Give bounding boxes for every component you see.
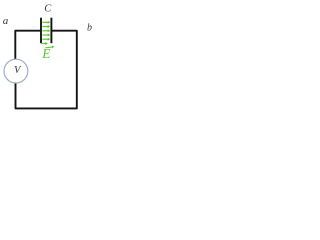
E-field arrow 3 between plates bbox=[42, 30, 48, 32]
E-field arrow 1 between plates bbox=[42, 21, 48, 23]
wire: right plate to top-right corner, down right side, bottom to left, up to source V bbox=[16, 31, 77, 109]
E-field arrow 5 between plates bbox=[42, 38, 48, 40]
E-field arrow 2 between plates bbox=[42, 26, 48, 28]
vector arrow over E bbox=[46, 46, 53, 49]
capacitor C right plate bbox=[50, 18, 52, 44]
svg-text:C: C bbox=[44, 3, 52, 14]
svg-text:a: a bbox=[3, 15, 9, 27]
capacitor C left plate bbox=[40, 18, 42, 44]
svg-text:E: E bbox=[41, 46, 51, 61]
E-field arrow 4 between plates bbox=[42, 34, 48, 36]
voltage source V (circle) bbox=[4, 59, 28, 83]
E-field arrow 6 between plates (bottom, shifted left) bbox=[41, 43, 46, 45]
wire: top-left + left down to source V bbox=[15, 31, 41, 60]
svg-text:b: b bbox=[87, 23, 92, 34]
